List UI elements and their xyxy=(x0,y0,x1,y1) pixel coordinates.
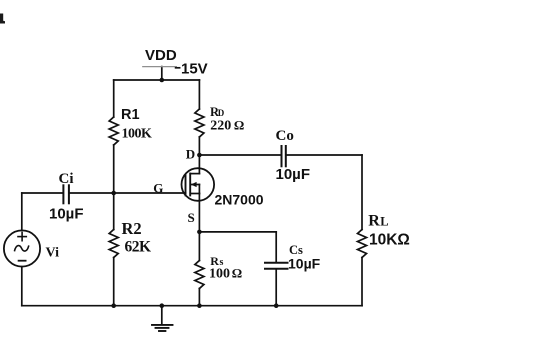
svg-text:D: D xyxy=(186,147,195,162)
svg-text:S: S xyxy=(188,210,195,225)
svg-text:Ω: Ω xyxy=(234,117,244,132)
svg-text:10µF: 10µF xyxy=(288,256,321,272)
svg-text:100: 100 xyxy=(209,267,230,282)
svg-text:100K: 100K xyxy=(122,127,153,142)
svg-text:62K: 62K xyxy=(125,238,152,255)
svg-text:R2: R2 xyxy=(122,219,142,238)
svg-text:220: 220 xyxy=(210,118,231,133)
svg-text:R: R xyxy=(368,213,380,230)
svg-text:VDD: VDD xyxy=(145,47,177,64)
svg-text:10KΩ: 10KΩ xyxy=(369,232,410,249)
svg-text:Co: Co xyxy=(276,128,294,144)
svg-text:Ci: Ci xyxy=(59,171,74,187)
svg-text:10µF: 10µF xyxy=(276,166,311,183)
svg-text:D: D xyxy=(218,108,225,118)
svg-text:R1: R1 xyxy=(121,107,140,123)
svg-text:Cs: Cs xyxy=(289,243,303,257)
svg-text:Vi: Vi xyxy=(46,246,60,261)
svg-text:2N7000: 2N7000 xyxy=(215,192,264,208)
svg-text:L: L xyxy=(380,215,388,229)
svg-text:15V: 15V xyxy=(181,61,208,78)
svg-text:Ω: Ω xyxy=(232,266,242,281)
svg-text:10µF: 10µF xyxy=(49,206,84,223)
svg-text:G: G xyxy=(153,180,163,195)
